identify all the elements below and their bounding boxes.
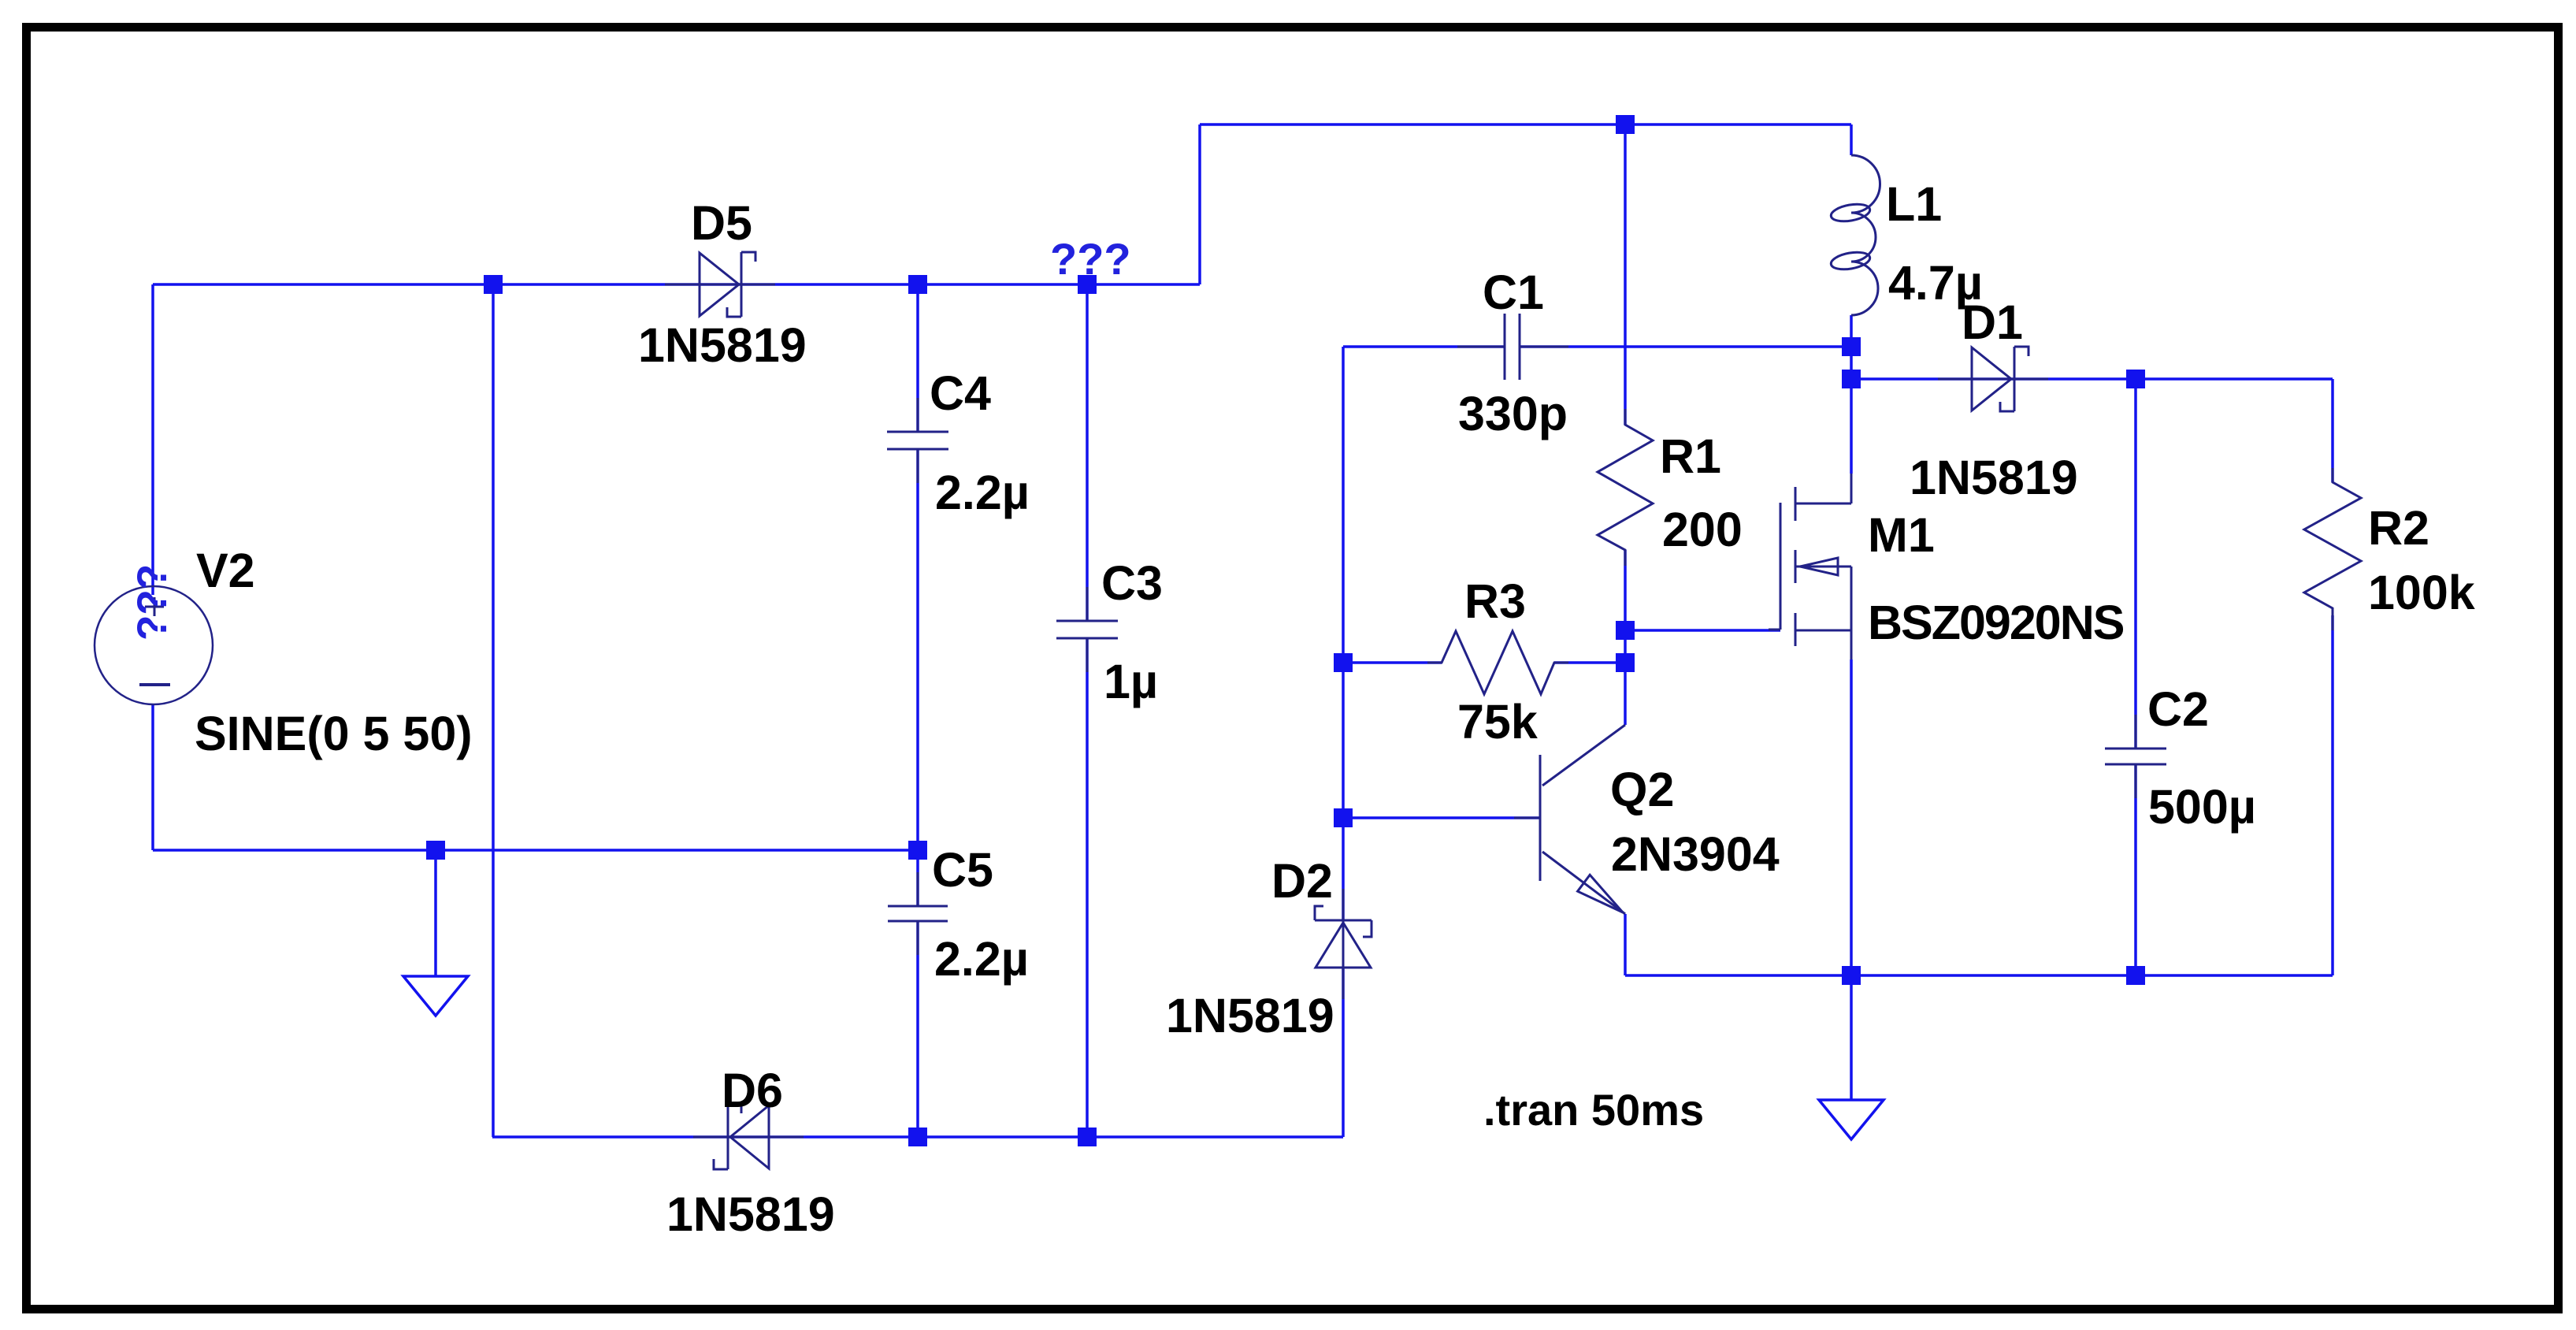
svg-text:C3: C3 bbox=[1101, 556, 1163, 610]
svg-text:75k: 75k bbox=[1457, 695, 1538, 749]
svg-text:200: 200 bbox=[1662, 503, 1743, 556]
svg-text:.tran 50ms: .tran 50ms bbox=[1483, 1085, 1704, 1135]
svg-text:???: ??? bbox=[129, 564, 176, 641]
svg-text:R1: R1 bbox=[1660, 429, 1721, 483]
svg-text:C5: C5 bbox=[932, 843, 993, 897]
svg-text:R3: R3 bbox=[1464, 574, 1526, 628]
svg-text:Q2: Q2 bbox=[1610, 763, 1674, 816]
svg-text:D2: D2 bbox=[1271, 854, 1333, 908]
svg-text:1µ: 1µ bbox=[1104, 655, 1158, 708]
svg-text:1N5819: 1N5819 bbox=[666, 1187, 835, 1241]
svg-text:R2: R2 bbox=[2368, 501, 2429, 555]
svg-text:BSZ0920NS: BSZ0920NS bbox=[1868, 596, 2124, 649]
svg-text:M1: M1 bbox=[1868, 508, 1935, 562]
svg-text:330p: 330p bbox=[1458, 387, 1568, 440]
svg-text:D1: D1 bbox=[1962, 295, 2023, 349]
svg-text:1N5819: 1N5819 bbox=[1166, 989, 1334, 1042]
svg-text:L1: L1 bbox=[1886, 177, 1942, 231]
svg-text:SINE(0 5 50): SINE(0 5 50) bbox=[195, 707, 473, 760]
svg-text:C4: C4 bbox=[930, 366, 991, 420]
svg-text:2N3904: 2N3904 bbox=[1611, 827, 1780, 881]
svg-text:500µ: 500µ bbox=[2148, 780, 2256, 834]
svg-text:2.2µ: 2.2µ bbox=[935, 466, 1030, 519]
svg-text:V2: V2 bbox=[196, 544, 255, 597]
svg-text:D6: D6 bbox=[722, 1064, 783, 1117]
svg-text:C1: C1 bbox=[1483, 266, 1544, 319]
svg-text:???: ??? bbox=[1050, 234, 1131, 284]
svg-text:1N5819: 1N5819 bbox=[1910, 451, 2078, 504]
svg-text:D5: D5 bbox=[691, 196, 752, 250]
svg-text:2.2µ: 2.2µ bbox=[934, 932, 1029, 986]
svg-text:100k: 100k bbox=[2368, 566, 2475, 619]
svg-text:1N5819: 1N5819 bbox=[638, 318, 807, 372]
svg-text:C2: C2 bbox=[2147, 682, 2209, 736]
